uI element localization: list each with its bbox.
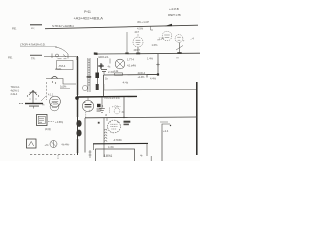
switch S1 arc xyxy=(55,47,68,54)
dashes bottom xyxy=(30,155,75,160)
sheet number xyxy=(168,13,181,17)
capacitor C3 with polarity xyxy=(101,63,107,75)
svg-text:4-DO-2-1: 4-DO-2-1 xyxy=(98,55,109,59)
junction blob B xyxy=(83,85,88,91)
label C4 xyxy=(112,104,121,108)
svg-text:TR:: TR: xyxy=(31,56,36,60)
capacitor C1 plate xyxy=(30,24,42,30)
resistor R3 label xyxy=(60,84,70,88)
wire label right xyxy=(137,20,149,24)
label -4.7 xyxy=(113,138,122,142)
speaker box SP1 xyxy=(37,115,48,126)
label 4.4% xyxy=(150,76,157,80)
capacitor C2 xyxy=(30,55,42,61)
title line 1 xyxy=(84,10,91,14)
bus label xyxy=(105,96,121,100)
wire corner into T1 xyxy=(76,57,77,61)
right border bus xyxy=(196,82,198,155)
svg-text:-4.4±: -4.4± xyxy=(122,81,129,85)
stub bottom right xyxy=(150,156,152,161)
svg-text:1.7T 4: 1.7T 4 xyxy=(127,57,134,61)
svg-text:4C7: 4C7 xyxy=(135,31,140,34)
wire drop to tube V1 xyxy=(125,32,128,54)
svg-text:S-TR 4L7 +4LL5B .it: S-TR 4L7 +4LL5B .it xyxy=(52,24,74,28)
resistor R1 label xyxy=(55,67,62,71)
label 1.6% xyxy=(152,43,159,47)
wire top rail xyxy=(45,25,198,29)
svg-text:4!: 4! xyxy=(105,113,107,117)
node P.E. label mid xyxy=(8,56,13,60)
svg-text:→4: →4 xyxy=(190,37,195,41)
svg-text:2%%: 2%% xyxy=(55,67,62,71)
label m2 xyxy=(177,56,179,59)
switch S1 contacts xyxy=(44,54,76,59)
winding L2 xyxy=(87,58,92,92)
label 4r xyxy=(140,154,143,158)
svg-text:4DC7: 4DC7 xyxy=(134,49,141,52)
power box PS1 xyxy=(96,149,135,163)
label 4-DC-4 xyxy=(138,71,146,79)
svg-text:+.: +. xyxy=(89,109,92,112)
antenna A1 label block xyxy=(11,85,21,96)
meter box M2 xyxy=(27,139,37,148)
svg-text:xx;: xx; xyxy=(31,27,35,30)
svg-text:P.E.: P.E. xyxy=(12,27,17,31)
resistor R4 small xyxy=(108,59,111,69)
drawing number xyxy=(169,7,179,11)
meter M1 xyxy=(158,31,172,42)
tube V2 envelope xyxy=(48,94,60,107)
svg-text:4±2%-1: 4±2%-1 xyxy=(11,89,20,93)
svg-text:1.6%: 1.6% xyxy=(152,43,159,47)
svg-text:+ 4 6%|: + 4 6%| xyxy=(55,120,63,124)
IF can box K1 xyxy=(57,59,74,70)
svg-text:+2.4: +2.4 xyxy=(163,129,169,133)
marks near x90 bottom xyxy=(89,150,92,158)
tube V1 lead xyxy=(136,47,140,54)
wire drop x124 xyxy=(123,97,125,117)
stub wire below rail left xyxy=(151,27,154,30)
tube V2 base xyxy=(50,102,59,111)
wire thin long xyxy=(104,84,197,90)
wire corner right xyxy=(162,124,171,161)
svg-text:+: + xyxy=(183,38,185,42)
svg-text:4.1 ±4%: 4.1 ±4% xyxy=(127,63,137,67)
svg-text:P+11: P+11 xyxy=(84,10,91,14)
transformer T1 winding blobs xyxy=(76,120,81,136)
tube V4 envelope xyxy=(82,97,93,112)
svg-text:-%↑4%-: -%↑4%- xyxy=(61,142,70,146)
label -4.4 xyxy=(122,81,129,85)
wire drop x104 xyxy=(98,118,104,157)
wire rail B xyxy=(94,52,200,55)
value label 1.7T xyxy=(127,57,134,61)
value label 4.1 xyxy=(127,63,137,67)
svg-text:+-4.17-B: +-4.17-B xyxy=(169,7,179,11)
svg-text:|4 (4)|: |4 (4)| xyxy=(45,127,51,131)
title line 2 xyxy=(74,16,104,21)
coil L4 xyxy=(27,90,39,103)
svg-text:2.2k-4: 2.2k-4 xyxy=(11,92,18,96)
svg-text:+A3+4D2+4B3LA: +A3+4D2+4B3LA xyxy=(74,16,104,21)
svg-text:-4.7±4%: -4.7±4% xyxy=(113,138,122,142)
svg-text:4% + 1.4 P: 4% + 1.4 P xyxy=(137,20,149,24)
part-circle top xyxy=(110,108,125,114)
plus node xyxy=(98,63,103,68)
svg-text:1.2k: 1.2k xyxy=(114,70,119,73)
shield dashed xyxy=(41,82,47,107)
tube V6 envelope xyxy=(107,118,120,133)
wire mid rail xyxy=(85,117,197,119)
wire drop from rail xyxy=(103,75,105,97)
svg-text:4.6%1: 4.6%1 xyxy=(104,154,113,158)
svg-text:PART 1.7B: PART 1.7B xyxy=(168,13,181,17)
svg-text:4.5%: 4.5% xyxy=(137,26,144,30)
label above mid rail xyxy=(89,109,108,117)
wire elbow xyxy=(147,73,159,77)
heavy bottom bus xyxy=(93,143,148,156)
lamp DS1 lead xyxy=(176,43,183,55)
wire top rail label xyxy=(52,24,74,28)
switch S2 vertical xyxy=(156,54,160,75)
junction blob on top rail xyxy=(165,24,173,26)
svg-text:+1.4%: +1.4% xyxy=(138,75,146,79)
svg-text:m: m xyxy=(177,56,179,59)
winding L3 with core xyxy=(95,58,99,90)
shield dashes below V4 xyxy=(85,112,87,118)
chassis box left xyxy=(84,118,86,153)
dashed leader label xyxy=(48,120,63,124)
label 1.1/4 xyxy=(159,37,165,41)
svg-text:+%: +% xyxy=(45,143,50,147)
tuning label row xyxy=(20,42,57,46)
svg-text:TR-F4-1: TR-F4-1 xyxy=(11,85,21,89)
svg-text:+ C4+–: + C4+– xyxy=(112,104,121,108)
svg-text:4.1.1: 4.1.1 xyxy=(48,94,54,97)
svg-text:1±2%: 1±2% xyxy=(60,84,67,88)
label 4 percent xyxy=(124,121,131,126)
svg-text:P.E.: P.E. xyxy=(8,56,13,60)
label below rail xyxy=(137,26,144,30)
mixer X1 xyxy=(115,59,125,69)
wire step xyxy=(46,79,76,85)
svg-text:N.C4-1± 4%: N.C4-1± 4% xyxy=(105,96,121,100)
label small xyxy=(108,70,115,74)
label right arrow xyxy=(190,37,195,41)
small dash under rail xyxy=(160,121,168,123)
coil dome L6 xyxy=(52,76,58,83)
svg-text:4-DC-4: 4-DC-4 xyxy=(138,71,146,75)
ground GND1 xyxy=(19,103,43,109)
transformer T1 primary (hatched column) xyxy=(76,56,79,155)
label 4.4% small xyxy=(108,146,114,149)
resistor R2 on feed line xyxy=(104,70,159,75)
black node square xyxy=(97,104,104,111)
pilot P1 xyxy=(45,141,58,148)
label 4DO xyxy=(98,55,109,59)
node P.E. label top xyxy=(12,27,17,31)
label +2.4 xyxy=(163,129,169,133)
label 1.4% xyxy=(147,56,154,60)
tube V1 envelope xyxy=(133,31,143,52)
ground GND2 xyxy=(99,97,105,112)
svg-text:4.4%: 4.4% xyxy=(150,76,157,80)
lamp DS1 xyxy=(175,35,185,43)
wire heavy bus xyxy=(75,96,137,100)
label arrows xyxy=(61,142,70,146)
label 1k xyxy=(105,77,108,81)
svg-text:1.1/4: 1.1/4 xyxy=(159,37,165,41)
svg-text:1.4%: 1.4% xyxy=(147,56,154,60)
svg-text:4r: 4r xyxy=(140,154,143,158)
svg-text:LT-GR- 4.7±4.5%-G.D.: LT-GR- 4.7±4.5%-G.D. xyxy=(20,42,46,46)
winding L5 xyxy=(104,129,107,142)
label under speaker xyxy=(45,127,51,131)
